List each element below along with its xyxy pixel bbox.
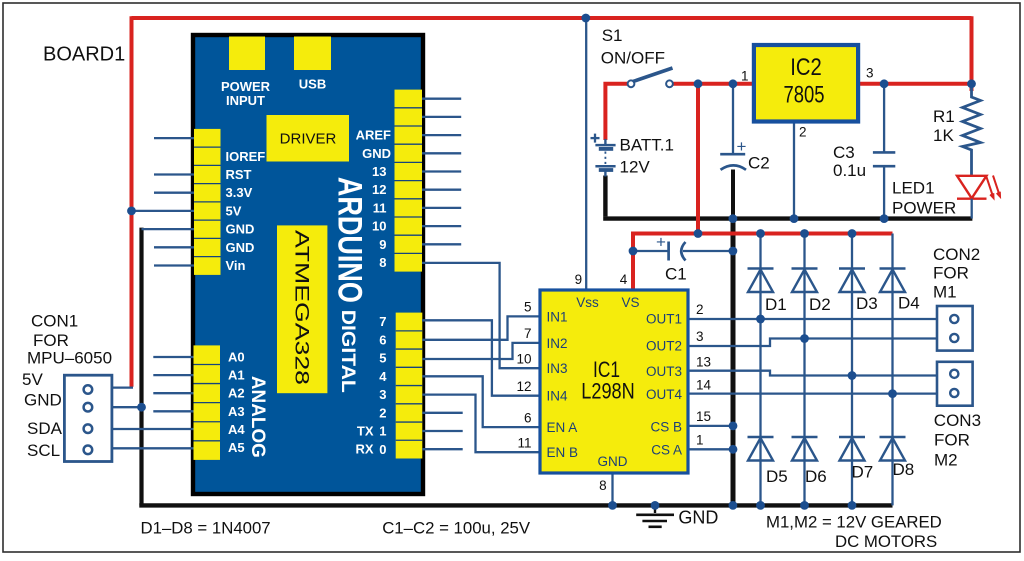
svg-text:D2: D2: [809, 295, 831, 314]
note C1-C2 = 100u 25V: [382, 518, 531, 537]
svg-text:OUT4: OUT4: [646, 387, 682, 402]
power pin header (left): [194, 129, 221, 275]
svg-text:R1: R1: [933, 107, 955, 126]
label CON1 FOR MPU-6050: [27, 312, 112, 368]
wire IC1 CS A to ground bus: [688, 448, 733, 450]
svg-text:CS B: CS B: [650, 419, 682, 434]
battery plus sign: [591, 134, 600, 143]
svg-text:ON/OFF: ON/OFF: [601, 49, 665, 68]
svg-text:EN B: EN B: [547, 445, 579, 460]
svg-text:IN4: IN4: [547, 389, 569, 404]
svg-text:5V: 5V: [22, 370, 43, 389]
diode D4: [880, 234, 906, 394]
svg-text:A2: A2: [228, 386, 245, 401]
svg-text:OUT1: OUT1: [646, 312, 682, 327]
voltage regulator IC2: [754, 45, 858, 122]
LED LED1: [957, 176, 1000, 219]
svg-text:FOR: FOR: [33, 331, 69, 350]
label C2: [748, 154, 770, 173]
labels AREF GND 13-8: [356, 128, 391, 270]
note D1-D8 = 1N4007: [141, 518, 271, 537]
wire top bus right drop to R1 (red): [970, 16, 974, 91]
svg-text:9: 9: [575, 272, 583, 287]
svg-text:RST: RST: [226, 167, 252, 182]
capacitor C1: [656, 233, 685, 261]
svg-text:M1: M1: [933, 283, 957, 302]
wire Arduino 5V to +5V rail: [132, 210, 195, 212]
wire switch to IC2 pin1 (red): [673, 82, 754, 86]
wire SCL to A5: [112, 447, 194, 449]
svg-text:0: 0: [379, 442, 386, 457]
resistor R1: [963, 88, 981, 176]
stubs upper right header: [422, 99, 461, 245]
svg-text:D8: D8: [893, 460, 915, 479]
svg-text:DC MOTORS: DC MOTORS: [835, 532, 937, 551]
svg-text:A0: A0: [228, 350, 245, 365]
motor driver IC1: [540, 290, 688, 473]
svg-text:RX: RX: [355, 442, 373, 457]
IC1 pin name Vss: [576, 295, 599, 310]
svg-text:3: 3: [379, 387, 386, 402]
svg-text:2: 2: [379, 405, 386, 420]
svg-text:3: 3: [696, 329, 704, 344]
svg-text:14: 14: [696, 378, 712, 393]
ATmega328 IC block: [277, 225, 327, 393]
svg-text:ATMEGA328: ATMEGA328: [291, 230, 312, 385]
wire battery negative lead (black): [603, 176, 607, 217]
svg-text:CON1: CON1: [31, 312, 78, 331]
connector CON1: [64, 375, 112, 461]
svg-text:A4: A4: [228, 422, 245, 437]
label ANALOG: [247, 376, 268, 458]
svg-text:CON2: CON2: [933, 245, 980, 264]
wire bottom ground bus (black): [139, 503, 892, 507]
diode D2: [792, 234, 818, 339]
svg-text:13: 13: [372, 164, 386, 179]
stubs left power header: [154, 138, 194, 265]
svg-text:9: 9: [379, 237, 386, 252]
IC1 pin names OUT1-OUT4 CS B CS A: [646, 312, 682, 458]
driver block: [267, 115, 350, 162]
wire +5V left vertical (red): [130, 16, 134, 387]
label S1 ON/OFF: [601, 26, 665, 68]
wire CON1 GND: [112, 406, 143, 408]
label USB: [299, 77, 326, 92]
svg-text:Vin: Vin: [226, 258, 246, 273]
wire IC2 pin2 down: [793, 122, 795, 219]
svg-text:SDA: SDA: [27, 419, 63, 438]
wire Arduino GND stub: [142, 228, 195, 230]
svg-text:IOREF: IOREF: [226, 149, 266, 164]
svg-text:POWER: POWER: [892, 199, 956, 218]
svg-text:7805: 7805: [784, 82, 825, 109]
svg-text:IN2: IN2: [547, 336, 568, 351]
label IC1 L298N: [581, 357, 635, 403]
svg-text:DRIVER: DRIVER: [280, 131, 337, 148]
svg-text:BATT.1: BATT.1: [620, 136, 674, 155]
wire Arduino GND down-left (black): [139, 228, 143, 506]
svg-text:GND: GND: [24, 391, 62, 410]
label GND: [678, 508, 718, 528]
svg-text:4: 4: [379, 369, 387, 384]
svg-text:13: 13: [696, 355, 711, 370]
wire IC1 GND pin down: [611, 473, 613, 505]
svg-text:GND: GND: [362, 146, 391, 161]
svg-text:1K: 1K: [933, 126, 954, 145]
svg-text:D7: D7: [852, 463, 874, 482]
IC2 pin 3 label: [866, 66, 874, 81]
label BATT.1 12V: [620, 136, 674, 177]
label CON3 FOR M2: [934, 411, 981, 469]
svg-text:7: 7: [524, 326, 532, 341]
svg-text:LED1: LED1: [892, 179, 935, 198]
svg-text:D1: D1: [765, 295, 787, 314]
labels IOREF RST 3.3V 5V GND GND Vin: [226, 149, 266, 273]
svg-text:1: 1: [696, 433, 704, 448]
svg-text:IN1: IN1: [547, 309, 568, 324]
svg-text:VS: VS: [621, 295, 639, 310]
label POWER INPUT: [221, 79, 271, 108]
svg-text:2: 2: [696, 302, 704, 317]
wire Arduino 6 to IC1 IN1: [422, 316, 540, 339]
svg-text:12: 12: [372, 182, 386, 197]
wire Vss vertical: [585, 18, 587, 290]
wire IC1 OUT4 to CON3: [688, 392, 937, 394]
svg-text:C3: C3: [833, 143, 855, 162]
svg-text:A3: A3: [228, 404, 245, 419]
IC1 pin name VS: [621, 295, 639, 310]
wire C3 leads: [883, 84, 885, 219]
upper digital header (right): [395, 90, 423, 272]
label BOARD1: [43, 44, 125, 66]
label IC2 7805: [784, 54, 825, 108]
svg-text:Vss: Vss: [576, 295, 599, 310]
svg-text:POWER: POWER: [221, 79, 271, 94]
wire Arduino 5 to IC1 IN2: [422, 343, 540, 359]
IC2 pin 2 label: [799, 125, 807, 140]
wire IC1 OUT1 to CON2: [688, 318, 937, 320]
diode D5: [748, 319, 774, 505]
diode D7: [839, 376, 865, 506]
svg-text:EN A: EN A: [547, 420, 578, 435]
connector CON3: [937, 362, 973, 406]
label DIGITAL: [337, 310, 358, 393]
USB pad: [294, 37, 331, 71]
svg-text:6: 6: [524, 410, 532, 425]
svg-text:2: 2: [799, 125, 807, 140]
wire C1 leads: [633, 250, 733, 252]
wire upper ground bus (black): [603, 216, 972, 220]
svg-text:8: 8: [599, 478, 607, 493]
label ARDUINO: [331, 177, 369, 303]
svg-text:5V: 5V: [226, 203, 242, 218]
svg-text:M2: M2: [934, 450, 958, 469]
svg-text:C1–C2 = 100u, 25V: C1–C2 = 100u, 25V: [382, 518, 531, 537]
diode D6: [792, 339, 818, 506]
wire Arduino 4 to IC1 EN A: [422, 376, 540, 427]
IC1 pin number 9: [575, 272, 583, 287]
wire +12V top bus (red): [132, 16, 972, 20]
svg-text:SCL: SCL: [27, 441, 60, 460]
svg-text:GND: GND: [678, 508, 718, 528]
labels 7-0 TX RX: [355, 314, 387, 457]
wire IC1 OUT2 to CON2: [688, 339, 937, 347]
IC1 pin number 4: [620, 272, 628, 287]
lower digital header (right): [396, 313, 423, 459]
svg-text:GND: GND: [226, 222, 255, 237]
svg-text:+: +: [737, 137, 747, 156]
analog header (left): [194, 345, 221, 460]
svg-text:IN3: IN3: [547, 361, 568, 376]
svg-text:TX: TX: [357, 424, 374, 439]
svg-text:MPU–6050: MPU–6050: [27, 349, 112, 368]
label LED1 POWER: [892, 179, 956, 218]
svg-text:L298N: L298N: [581, 378, 635, 403]
diode D8: [880, 394, 906, 506]
wire Arduino 7 to IC1 IN4: [422, 320, 540, 395]
wire VS drop (red): [631, 232, 635, 291]
battery BATT.1: [595, 139, 615, 177]
connector CON2: [937, 306, 973, 351]
svg-text:DIGITAL: DIGITAL: [337, 310, 358, 393]
label DRIVER: [280, 131, 337, 148]
note M1 M2 = 12V GEARED DC MOTORS: [766, 512, 942, 551]
svg-text:12V: 12V: [620, 158, 651, 177]
svg-text:OUT3: OUT3: [646, 364, 682, 379]
svg-text:CS A: CS A: [651, 443, 682, 458]
wire +12V drop (red): [696, 84, 700, 234]
svg-text:USB: USB: [299, 77, 326, 92]
wire battery positive to switch (red): [605, 84, 628, 140]
wire IC1 OUT3 to CON3: [688, 371, 937, 376]
svg-text:AREF: AREF: [356, 128, 391, 143]
wire Arduino 3 to IC1 EN B: [422, 395, 540, 453]
svg-text:IC2: IC2: [790, 54, 822, 81]
svg-text:5: 5: [524, 300, 532, 315]
svg-text:3: 3: [866, 66, 874, 81]
svg-text:D1–D8 = 1N4007: D1–D8 = 1N4007: [141, 518, 271, 537]
svg-text:1: 1: [741, 69, 749, 84]
labels D5 D6 D7 D8: [766, 460, 914, 486]
wire CON1 5V: [112, 386, 133, 388]
wire +12V lower bus (red): [633, 232, 893, 236]
labels D1 D2 D3 D4: [765, 294, 920, 315]
svg-text:10: 10: [516, 351, 531, 366]
diode D3: [839, 234, 865, 376]
IC1 pin numbers 2 3 13 14 15 1: [696, 302, 712, 447]
svg-text:6: 6: [379, 332, 386, 347]
ground symbol: [636, 505, 674, 527]
svg-text:S1: S1: [602, 26, 623, 45]
labels A0-A5: [228, 350, 245, 456]
capacitor C2: [720, 137, 746, 170]
svg-text:ANALOG: ANALOG: [247, 376, 268, 458]
svg-text:D3: D3: [856, 294, 878, 313]
label R1 1K: [933, 107, 955, 145]
svg-text:12: 12: [516, 379, 531, 394]
stubs lower digital header: [422, 413, 462, 449]
svg-text:D4: D4: [898, 294, 920, 313]
label CON2 FOR M1: [933, 245, 980, 302]
svg-text:7: 7: [379, 314, 386, 329]
svg-text:15: 15: [696, 409, 711, 424]
IC1 pin number 8: [599, 478, 607, 493]
wire C2 leads: [732, 84, 734, 219]
svg-text:A5: A5: [228, 440, 245, 455]
IC1 pin names IN1-IN4 EN A EN B: [547, 309, 579, 460]
wire IC2 pin3 to R1 (red): [858, 82, 970, 86]
capacitor C3: [873, 152, 895, 166]
svg-text:1: 1: [379, 424, 386, 439]
label C1: [665, 265, 687, 284]
svg-text:8: 8: [379, 255, 386, 270]
svg-text:D6: D6: [805, 467, 827, 486]
wire SDA to A4: [112, 428, 194, 430]
svg-text:+: +: [656, 233, 666, 252]
diode D1: [748, 234, 774, 320]
svg-text:OUT2: OUT2: [646, 339, 682, 354]
wire vertical ground bus (black): [731, 219, 736, 506]
svg-text:D5: D5: [766, 467, 788, 486]
svg-text:3.3V: 3.3V: [226, 185, 253, 200]
svg-text:FOR: FOR: [933, 264, 969, 283]
svg-text:CON3: CON3: [934, 411, 981, 430]
svg-text:M1,M2 = 12V GEARED: M1,M2 = 12V GEARED: [766, 512, 942, 531]
IC1 pin name GND: [598, 454, 628, 469]
svg-text:4: 4: [620, 272, 628, 287]
svg-text:A1: A1: [228, 368, 245, 383]
labels 5V GND SDA SCL: [22, 370, 63, 460]
svg-text:GND: GND: [598, 454, 628, 469]
Arduino board BOARD1 body: [193, 35, 423, 494]
IC2 pin 1 label: [741, 69, 749, 84]
svg-text:BOARD1: BOARD1: [43, 44, 125, 66]
stubs analog header A0-A3: [153, 357, 193, 411]
svg-text:5: 5: [379, 351, 386, 366]
power input pad: [229, 37, 265, 71]
svg-text:INPUT: INPUT: [226, 93, 265, 108]
svg-text:C1: C1: [665, 265, 687, 284]
svg-text:GND: GND: [226, 240, 255, 255]
svg-text:ARDUINO: ARDUINO: [331, 177, 369, 303]
label ATMEGA328: [291, 230, 312, 385]
svg-text:FOR: FOR: [934, 430, 970, 449]
IC1 pin numbers 5 7 10 12 6 11: [516, 300, 531, 451]
label C3 0.1u: [833, 143, 866, 180]
wire Arduino 8 to IC1 IN3: [422, 263, 540, 368]
svg-text:10: 10: [372, 219, 386, 234]
svg-text:0.1u: 0.1u: [833, 161, 866, 180]
switch S1: [628, 68, 673, 87]
svg-text:11: 11: [517, 435, 531, 450]
svg-text:11: 11: [373, 200, 387, 215]
wire IC1 CS B to ground bus: [688, 425, 733, 427]
svg-text:C2: C2: [748, 154, 770, 173]
